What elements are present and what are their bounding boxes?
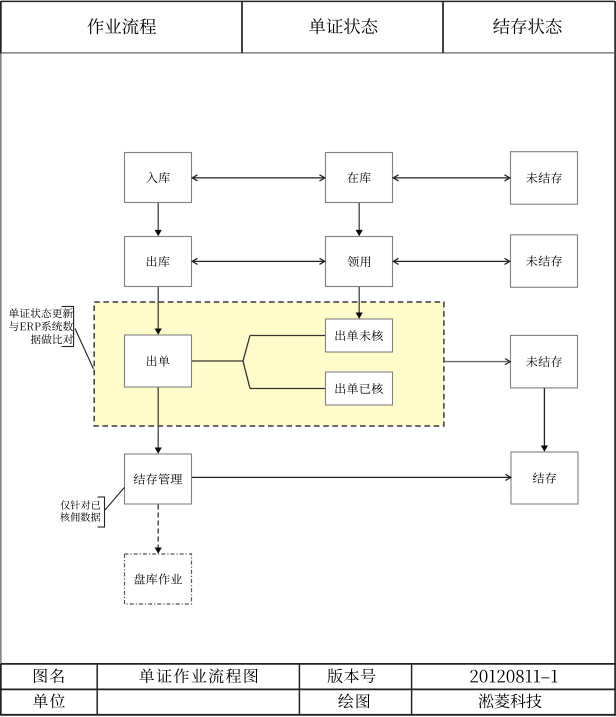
arrow 结存管理→结存 [192, 474, 511, 480]
connector 出单→出单未核/出单已核 fork [192, 336, 325, 389]
box 出单已核 [326, 372, 393, 405]
annotation bracket 1 [62, 307, 75, 347]
table borders [1, 664, 616, 715]
arrow 出库→出单 [155, 287, 162, 335]
header cell 作业流程 [87, 18, 156, 34]
arrow 在库→领用 [356, 203, 363, 236]
box 结存 [511, 452, 578, 504]
box 盘库作业 (dash-dot) [125, 554, 192, 604]
yellow dashed zone 单证状态更新区 [94, 302, 444, 426]
table cell 淞菱科技 [478, 693, 541, 708]
header cell 结存状态 [493, 18, 561, 34]
table cell 图名 [34, 668, 64, 683]
annotation 仅针对已核佣数据 [60, 500, 100, 521]
box 未结存 row3 [511, 335, 578, 388]
box 出库 [125, 237, 192, 287]
box 出单 [125, 335, 192, 387]
dashed arrow 结存管理→盘库作业 [155, 505, 162, 554]
arrow 领用→出单未核 [356, 287, 363, 319]
header divider 2 [442, 2, 444, 53]
arrow 出库-领用 double [192, 258, 325, 264]
box 领用 [326, 237, 393, 287]
box 结存管理 [125, 454, 192, 504]
table cell 单位 [33, 694, 65, 709]
arrow 出单→结存管理 [155, 388, 162, 454]
box 在库 [326, 153, 393, 203]
arrow 在库-未结存1 double [393, 175, 510, 181]
box 出单未核 [326, 319, 393, 352]
arrow 入库→出库 [155, 203, 162, 236]
table cell 绘图 [338, 694, 369, 709]
header divider 1 [241, 2, 243, 53]
arrow 领用-未结存2 double [393, 258, 510, 264]
header cell 单证状态 [309, 18, 377, 34]
table cell 20120811-1 [470, 670, 557, 683]
annotation bracket 2 [98, 497, 106, 527]
arrow 未结存3→结存 [541, 388, 548, 452]
leader line 2 [105, 488, 124, 511]
leader line 1 [75, 329, 94, 370]
box 未结存 row2 [511, 235, 578, 287]
annotation 单证状态更新与ERP系统数据做比对 [9, 308, 73, 344]
arrow yellowzone→未结存3 [444, 359, 510, 365]
box 入库 [125, 153, 192, 203]
table cell 版本号 [328, 668, 376, 683]
box 未结存 row1 [511, 152, 578, 205]
arrow 入库-在库 double [192, 175, 325, 181]
table cell 单证作业流程图 [139, 668, 257, 683]
